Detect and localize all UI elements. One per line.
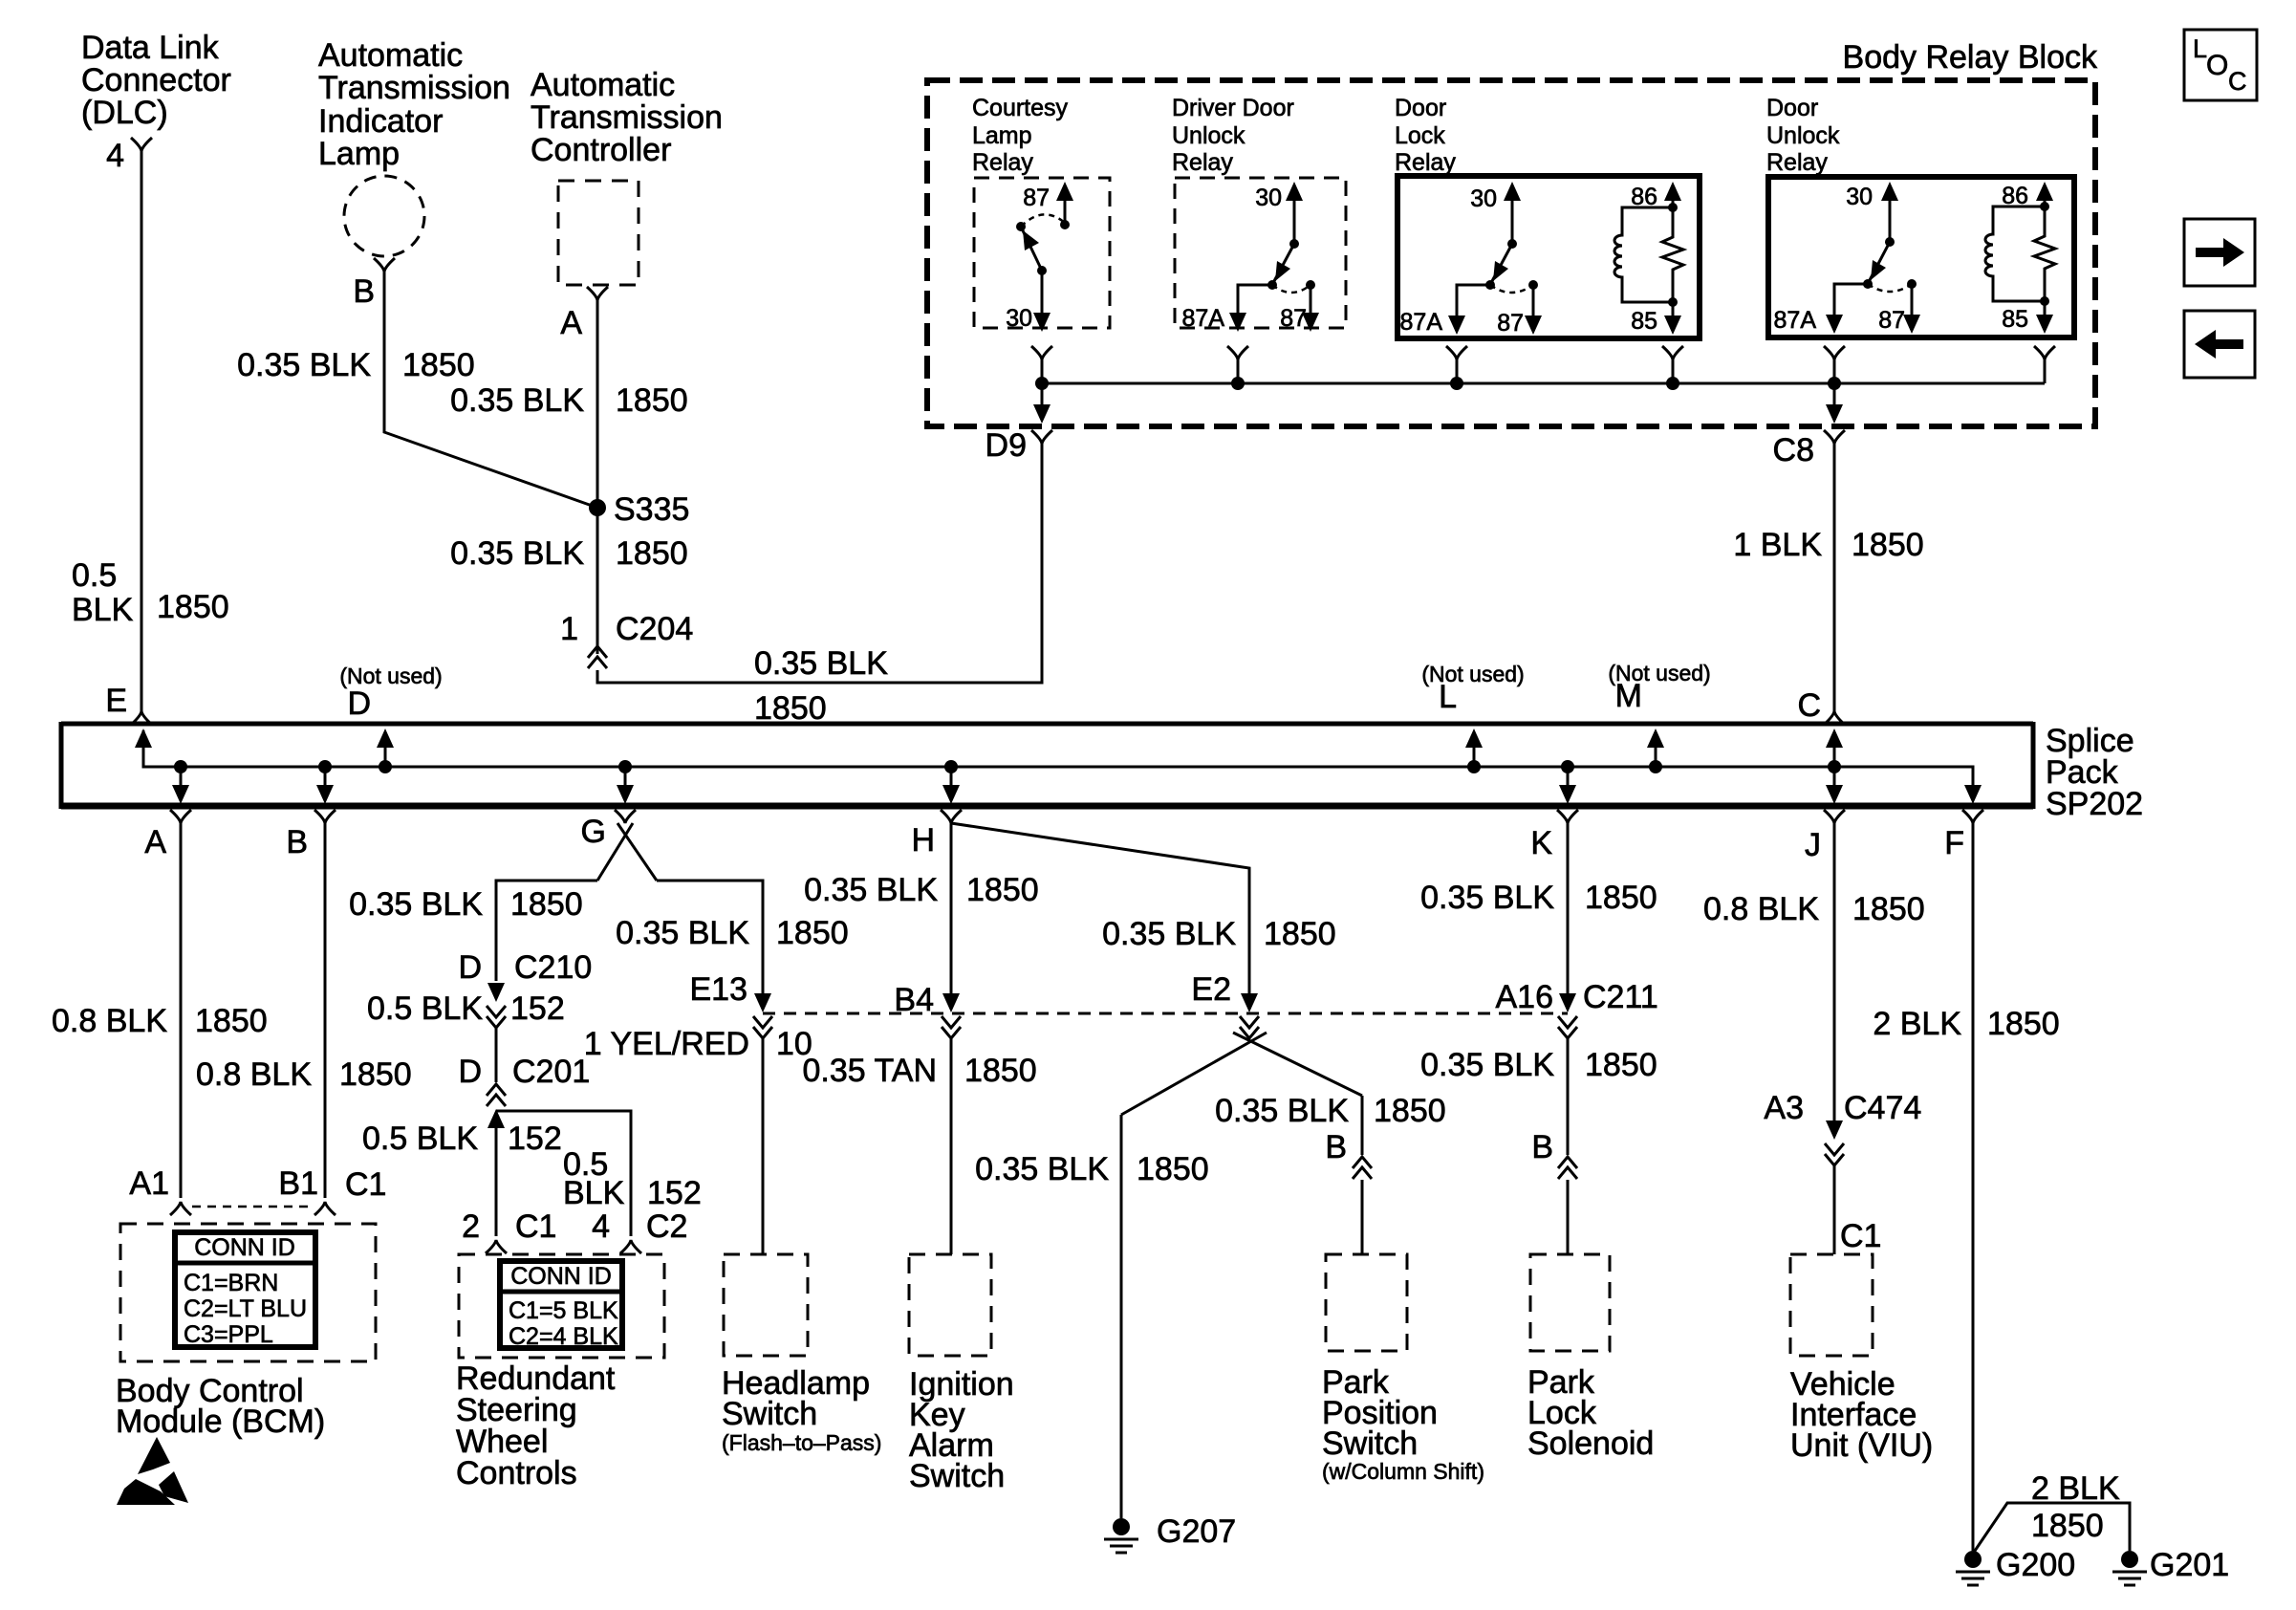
pin 30 stub with arrow	[1881, 182, 1898, 247]
switch S2 ignition key alarm dashed box	[909, 1254, 991, 1356]
svg-text:30: 30	[1006, 305, 1032, 332]
svg-text:Relay: Relay	[1766, 149, 1828, 176]
svg-text:87: 87	[1878, 307, 1905, 334]
legend arrow right box	[2184, 219, 2255, 286]
svg-text:Relay: Relay	[1395, 149, 1456, 176]
wire J to C474	[1833, 821, 1836, 1122]
wire label 0.5 BLK 152 (pin4 stacked)	[563, 1146, 702, 1211]
pin 87A leg	[1229, 285, 1272, 332]
svg-text:G207: G207	[1157, 1513, 1236, 1550]
solenoid L1 park lock label	[1527, 1364, 1654, 1462]
label (Not used) D	[339, 664, 442, 722]
wire label 1 YEL/RED 10	[584, 1026, 812, 1062]
svg-text:85: 85	[2002, 306, 2028, 333]
wire B to BCM C1	[324, 821, 327, 1198]
junction dot driver door 87A	[1231, 377, 1245, 390]
wire door unlock 85 to bus	[2044, 358, 2047, 383]
connector C204 labels 1 C204	[560, 611, 693, 647]
svg-text:BLK: BLK	[72, 592, 134, 628]
connector E2 arrow and chevrons	[1240, 993, 1259, 1038]
dashed interconnect wire E13-B4-E2-A16	[763, 1012, 1568, 1015]
svg-text:C1: C1	[345, 1166, 386, 1203]
svg-text:1850: 1850	[966, 872, 1039, 908]
svg-text:Data Link: Data Link	[81, 30, 220, 66]
wire label 1 BLK 1850	[1733, 527, 1923, 563]
svg-text:87A: 87A	[1774, 307, 1817, 334]
connector A3 C474 labels	[1764, 1090, 1921, 1126]
svg-text:C1=BRN: C1=BRN	[184, 1270, 278, 1296]
wire door lock 87A to bus	[1456, 358, 1459, 383]
splice S335	[589, 491, 689, 528]
wire C8 to splice C	[1833, 442, 1836, 711]
cup F and label	[1944, 810, 1983, 861]
svg-text:87: 87	[1497, 310, 1524, 337]
svg-text:1850: 1850	[1852, 891, 1925, 927]
svg-text:A3: A3	[1764, 1090, 1804, 1126]
wire E2 split X crossing	[1121, 1033, 1362, 1115]
cup under door unlock 85	[2034, 346, 2055, 359]
relay K4 switch blade	[1863, 242, 1890, 289]
wire G split X crossing	[597, 823, 657, 881]
switch S3 park position label	[1322, 1364, 1484, 1484]
module VIU dashed box	[1790, 1254, 1873, 1356]
wire label 0.35 BLK 1850 (G left)	[349, 886, 583, 923]
svg-text:Switch: Switch	[909, 1458, 1005, 1494]
connector C201 chevrons and arrow	[487, 1084, 506, 1128]
wire C201 to RSW pin 2	[495, 1126, 498, 1236]
wire E2 left branch to G207	[1120, 1115, 1123, 1518]
splice internal bus	[143, 730, 1973, 794]
wire K to A16	[1567, 821, 1570, 996]
ESD sensitive symbol	[117, 1437, 188, 1505]
pin 87 stub with arrow	[1056, 182, 1073, 229]
cup under door lock 87A	[1446, 346, 1467, 359]
pin 87 leg	[1525, 280, 1542, 335]
wire G right branch to E13	[657, 881, 763, 996]
svg-text:Relay: Relay	[1172, 149, 1233, 176]
svg-text:C201: C201	[512, 1054, 590, 1090]
cup BCM A1	[170, 1202, 191, 1215]
svg-text:A: A	[144, 824, 166, 860]
splice stub M not used	[1647, 729, 1664, 773]
svg-text:1850: 1850	[1987, 1006, 2060, 1042]
wire label 0.35 BLK 1850 (E13)	[616, 915, 849, 951]
connector B chevrons and arrow (PPS)	[1353, 1157, 1372, 1179]
svg-text:1850: 1850	[1264, 916, 1336, 952]
module RSW dashed box	[459, 1254, 664, 1358]
wire label 2 BLK 1850 (jog)	[2031, 1470, 2120, 1544]
pin 87A leg	[1448, 285, 1490, 335]
svg-text:Connector: Connector	[81, 62, 231, 98]
relay K3 switch blade	[1485, 244, 1512, 290]
wire label 0.35 BLK 1850	[237, 347, 475, 383]
DLC pin 4 connector cup	[131, 138, 152, 151]
cup K and label	[1530, 810, 1578, 861]
connector B4 arrow and chevrons	[942, 993, 961, 1038]
splice pack SP202 box	[61, 722, 2033, 809]
svg-text:C1=5 BLK: C1=5 BLK	[509, 1297, 618, 1324]
svg-text:4: 4	[592, 1208, 610, 1245]
svg-text:G: G	[581, 814, 606, 850]
wire label 0.35 BLK 1850 (K upper)	[1420, 880, 1657, 916]
svg-text:B: B	[286, 824, 308, 860]
svg-text:0.35 BLK: 0.35 BLK	[237, 347, 371, 383]
splice drop F arrow	[1964, 785, 1982, 804]
wire A to BCM A1	[180, 821, 183, 1198]
svg-text:0.35 BLK: 0.35 BLK	[975, 1151, 1109, 1187]
svg-text:0.35 BLK: 0.35 BLK	[1215, 1093, 1349, 1129]
BCM conn id table	[175, 1232, 315, 1348]
svg-text:C1: C1	[1840, 1218, 1881, 1254]
svg-text:1850: 1850	[616, 382, 688, 419]
relay K2 actuation arc	[1272, 285, 1310, 293]
svg-text:(w/Column Shift): (w/Column Shift)	[1322, 1459, 1484, 1484]
svg-text:D: D	[458, 1054, 482, 1090]
svg-text:Switch: Switch	[1322, 1425, 1418, 1462]
pin 2 C1 labels	[462, 1208, 556, 1245]
svg-text:C211: C211	[1583, 979, 1658, 1015]
svg-text:1850: 1850	[616, 535, 688, 572]
cup RSW pin 4	[620, 1240, 641, 1253]
cup under courtesy relay 30	[1031, 346, 1052, 359]
svg-text:87: 87	[1023, 185, 1050, 211]
pin 85 leg	[2036, 296, 2053, 334]
svg-text:0.35 BLK: 0.35 BLK	[349, 886, 483, 923]
cup BCM B1	[314, 1202, 336, 1215]
svg-text:H: H	[911, 822, 935, 859]
svg-text:0.5: 0.5	[72, 557, 117, 594]
wire label 0.35 BLK 1850 upper	[450, 382, 688, 419]
connector cup D9	[1031, 430, 1052, 444]
wire door lock 85 to bus	[1672, 358, 1675, 383]
relay K1 courtesy lamp relay box	[974, 178, 1110, 328]
label (Not used) M	[1608, 661, 1710, 714]
svg-text:1850: 1850	[1852, 527, 1924, 563]
svg-text:Solenoid: Solenoid	[1527, 1425, 1654, 1462]
wire label 0.8 BLK 1850 (J)	[1703, 891, 1925, 927]
module BCM dashed box	[120, 1224, 376, 1361]
svg-text:1850: 1850	[1137, 1151, 1209, 1187]
svg-text:2 BLK: 2 BLK	[1873, 1006, 1961, 1042]
connector C210 arrow and chevrons	[487, 983, 506, 1028]
wire jog G200 to G201	[1973, 1503, 2130, 1554]
svg-text:G200: G200	[1996, 1547, 2075, 1583]
svg-text:Unlock: Unlock	[1766, 122, 1840, 149]
svg-text:152: 152	[647, 1175, 702, 1211]
switch S1 headlamp dashed box	[724, 1254, 808, 1356]
pin 30 leg	[1033, 271, 1051, 332]
svg-text:Automatic: Automatic	[531, 67, 675, 103]
svg-text:D: D	[458, 949, 482, 986]
relay K2 switch blade	[1267, 244, 1294, 290]
cup J and label	[1805, 810, 1845, 863]
svg-text:0.35 BLK: 0.35 BLK	[450, 535, 584, 572]
wire B to park lock solenoid	[1567, 1180, 1570, 1254]
relay K2 driver door unlock relay box	[1175, 178, 1346, 328]
dashed link A1 to B1	[192, 1206, 314, 1208]
wire label 0.35 TAN 1850	[803, 1053, 1037, 1089]
svg-text:Driver Door: Driver Door	[1172, 95, 1294, 121]
svg-text:1850: 1850	[339, 1056, 412, 1093]
svg-text:D9: D9	[986, 427, 1027, 464]
connector cup at splice C	[1824, 711, 1845, 725]
wire label 2 BLK 1850 (F)	[1873, 1006, 2059, 1042]
splice drop J	[1826, 760, 1843, 804]
lamp label: Automatic Transmission Indicator Lamp	[318, 37, 510, 172]
relay K3 door lock relay box	[1397, 176, 1700, 338]
svg-text:Unit (VIU): Unit (VIU)	[1790, 1427, 1933, 1464]
cup H and label	[911, 810, 962, 859]
connector C201 labels D C201	[458, 1054, 590, 1090]
svg-text:D: D	[347, 685, 371, 722]
cup under door lock 85	[1662, 346, 1683, 359]
wire label 0.35 BLK 1850 (E2)	[1102, 916, 1336, 952]
wire controller A to C204	[596, 298, 599, 654]
svg-text:0.35 BLK: 0.35 BLK	[616, 915, 749, 951]
wire bus to D9 with arrow	[1033, 383, 1051, 424]
junction dot C8 column	[1828, 377, 1841, 390]
wire A16 to park lock solenoid B	[1567, 1038, 1570, 1155]
svg-text:1850: 1850	[2031, 1508, 2104, 1544]
relay K4 door unlock relay label	[1766, 95, 1840, 176]
controller label: Automatic Transmission Controller	[531, 67, 723, 168]
svg-text:C2: C2	[646, 1208, 687, 1245]
connector B chevrons and arrow (PLS)	[1558, 1157, 1577, 1179]
ground G207	[1104, 1513, 1236, 1553]
relay K4 coil	[1985, 207, 2045, 301]
pin 86 stub with arrow	[2036, 182, 2053, 211]
connector E13 arrow and chevrons	[753, 993, 772, 1038]
connector C204 chevrons	[588, 646, 607, 668]
splice drop B	[316, 760, 334, 804]
svg-text:2: 2	[462, 1208, 480, 1245]
svg-text:C3=PPL: C3=PPL	[184, 1321, 273, 1348]
junction dot door lock 85	[1666, 377, 1679, 390]
svg-text:85: 85	[1631, 308, 1657, 335]
svg-text:B1: B1	[278, 1165, 318, 1202]
ground G200	[1956, 1547, 2075, 1585]
relay K1 actuation arc	[1021, 214, 1065, 227]
svg-text:0.35 BLK: 0.35 BLK	[1102, 916, 1236, 952]
svg-text:152: 152	[510, 990, 565, 1027]
svg-text:L: L	[2193, 34, 2207, 63]
pin 30 stub with arrow	[1286, 182, 1303, 249]
svg-text:C1: C1	[515, 1208, 556, 1245]
svg-text:K: K	[1530, 825, 1552, 861]
wire label 0.8 BLK 1850 (A)	[52, 1003, 268, 1039]
svg-text:Controller: Controller	[531, 132, 671, 168]
svg-text:87A: 87A	[1182, 305, 1225, 332]
svg-text:1850: 1850	[754, 690, 827, 727]
svg-text:(Not used): (Not used)	[1421, 662, 1524, 686]
connector C474 arrow and chevrons	[1825, 1120, 1844, 1165]
wire label 0.5 BLK 152 (pin2)	[362, 1120, 562, 1157]
wire E2 right branch to park position switch	[1361, 1096, 1364, 1155]
pin 4 C2 labels	[592, 1208, 687, 1245]
svg-text:152: 152	[508, 1120, 562, 1157]
svg-text:1 YEL/RED: 1 YEL/RED	[584, 1026, 749, 1062]
cup A and label	[144, 810, 191, 860]
svg-text:L: L	[1439, 679, 1457, 715]
relay K3 door lock relay label	[1395, 95, 1456, 176]
svg-text:30: 30	[1846, 184, 1873, 210]
svg-text:CONN ID: CONN ID	[510, 1263, 612, 1290]
svg-text:M: M	[1615, 678, 1642, 714]
body relay block dashed border	[927, 80, 2095, 426]
svg-text:Courtesy: Courtesy	[972, 95, 1069, 121]
svg-text:C: C	[2228, 67, 2247, 96]
splice pack SP202 label	[2046, 723, 2143, 822]
splice C entry arrow stub	[1826, 729, 1843, 767]
svg-text:Transmission: Transmission	[531, 99, 723, 136]
pin 30 stub with arrow	[1504, 182, 1521, 249]
svg-text:0.8 BLK: 0.8 BLK	[1703, 891, 1819, 927]
svg-text:C: C	[1797, 687, 1821, 724]
svg-text:1850: 1850	[1585, 880, 1657, 916]
svg-text:0.8 BLK: 0.8 BLK	[52, 1003, 167, 1039]
svg-text:C474: C474	[1844, 1090, 1921, 1126]
svg-text:0.35 BLK: 0.35 BLK	[1420, 1047, 1554, 1083]
wire C210 to C201	[495, 1028, 498, 1082]
wire courtesy 30 to bus	[1041, 358, 1044, 383]
wire door unlock 87A to bus	[1833, 358, 1836, 383]
wire C204 to D9	[597, 442, 1042, 683]
splice stub L not used	[1465, 729, 1483, 773]
relay K3 actuation arc	[1490, 285, 1533, 293]
svg-text:O: O	[2206, 50, 2228, 81]
svg-text:0.35 TAN: 0.35 TAN	[803, 1053, 937, 1089]
svg-text:Controls: Controls	[456, 1455, 577, 1491]
svg-text:E: E	[105, 683, 127, 719]
splice drop H	[942, 760, 960, 804]
svg-text:2 BLK: 2 BLK	[2031, 1470, 2120, 1507]
splice drop K	[1559, 760, 1576, 804]
svg-text:Indicator: Indicator	[318, 103, 443, 140]
svg-text:Unlock: Unlock	[1172, 122, 1245, 149]
svg-text:Lock: Lock	[1395, 122, 1445, 149]
module BCM label	[116, 1373, 325, 1440]
relay K2 driver door unlock relay label	[1172, 95, 1294, 176]
wire C474 to VIU C1	[1833, 1165, 1836, 1254]
legend LOC box	[2184, 30, 2257, 100]
wire H to B4	[950, 821, 953, 996]
svg-text:1: 1	[560, 611, 578, 647]
wire driver door 87A to bus	[1237, 358, 1240, 383]
svg-text:0.35 BLK: 0.35 BLK	[1420, 880, 1554, 916]
cup under driver door relay 87A	[1227, 346, 1248, 359]
svg-text:(Flash–to–Pass): (Flash–to–Pass)	[722, 1430, 881, 1455]
svg-text:Transmission: Transmission	[318, 70, 510, 106]
switch S1 headlamp label	[722, 1365, 881, 1455]
RSW conn id table	[500, 1261, 622, 1350]
svg-text:4: 4	[106, 138, 124, 174]
pin 87 leg	[1302, 280, 1319, 332]
svg-text:C2=4 BLK: C2=4 BLK	[509, 1323, 618, 1350]
svg-text:F: F	[1944, 825, 1964, 861]
wire B4 to ignition key alarm switch	[950, 1038, 953, 1254]
pin 87 leg	[1903, 279, 1920, 334]
svg-text:SP202: SP202	[2046, 786, 2143, 822]
splice stub D not used	[377, 729, 394, 773]
switch S3 park position dashed box	[1326, 1254, 1407, 1351]
junction dot door lock 87A	[1450, 377, 1463, 390]
cup G and label	[581, 810, 636, 850]
svg-text:0.8 BLK: 0.8 BLK	[196, 1056, 312, 1093]
connector cup C8	[1824, 430, 1845, 444]
svg-text:1850: 1850	[402, 347, 475, 383]
svg-text:0.35 BLK: 0.35 BLK	[450, 382, 584, 419]
svg-text:0.5 BLK: 0.5 BLK	[362, 1120, 478, 1157]
wire label 0.35 BLK 1850 (B4)	[804, 872, 1039, 908]
relay K4 door unlock relay box	[1768, 177, 2074, 337]
svg-text:S335: S335	[614, 491, 689, 528]
legend arrow left box	[2184, 311, 2255, 378]
svg-text:A16: A16	[1496, 979, 1554, 1015]
wire label 0.5 BLK 152	[367, 990, 565, 1027]
svg-text:CONN ID: CONN ID	[194, 1234, 295, 1261]
junction dot D9 column	[1035, 377, 1049, 390]
splice E entry arrow	[135, 729, 152, 748]
svg-text:Door: Door	[1395, 95, 1446, 121]
relay K4 resistor	[2034, 207, 2055, 301]
relay block ground bus	[1042, 382, 2045, 385]
svg-text:B: B	[1325, 1129, 1347, 1165]
label (Not used) L	[1421, 662, 1524, 715]
svg-text:E13: E13	[690, 971, 748, 1008]
svg-text:Module (BCM): Module (BCM)	[116, 1403, 325, 1440]
connector DLC label	[81, 30, 231, 131]
relay K4 actuation arc	[1868, 284, 1912, 292]
svg-text:30: 30	[1255, 185, 1282, 211]
wire label 0.35 BLK 1850 (PPS)	[1215, 1093, 1446, 1129]
wire F to G200	[1972, 821, 1975, 1551]
svg-text:C204: C204	[616, 611, 693, 647]
wire bus to C8 with arrow	[1826, 383, 1843, 424]
cup under door unlock 87A	[1824, 346, 1845, 359]
lamp pin B connector cup	[374, 258, 395, 272]
splice drop G	[617, 760, 634, 804]
connector A16 C211 labels	[1496, 979, 1658, 1015]
relay K1 contact pivot dot	[1016, 222, 1026, 231]
svg-text:Lamp: Lamp	[318, 136, 400, 172]
splice drop A	[172, 760, 189, 804]
svg-text:Switch: Switch	[722, 1396, 817, 1432]
pin 86 stub with arrow	[1664, 182, 1681, 212]
svg-text:Relay: Relay	[972, 149, 1033, 176]
svg-text:Lamp: Lamp	[972, 122, 1032, 149]
svg-text:1850: 1850	[510, 886, 583, 923]
svg-text:E2: E2	[1191, 971, 1231, 1008]
svg-text:G201: G201	[2150, 1547, 2229, 1583]
wire E13 to headlamp switch	[762, 1038, 765, 1254]
svg-text:Automatic: Automatic	[318, 37, 463, 74]
svg-text:87A: 87A	[1400, 309, 1443, 336]
controller pin A connector cup	[587, 287, 608, 300]
wire lamp B to S335	[384, 270, 597, 508]
svg-text:B: B	[1531, 1129, 1553, 1165]
lamp L1 dashed circle	[344, 176, 424, 256]
switch S2 ignition key alarm label	[909, 1366, 1014, 1494]
svg-text:Body Relay Block: Body Relay Block	[1843, 39, 2098, 76]
wire branch to RSW pin 4	[496, 1111, 631, 1236]
connector A16 arrow and chevrons	[1558, 993, 1577, 1038]
svg-text:1850: 1850	[1585, 1047, 1657, 1083]
wire label 0.35 BLK 1850 (G207)	[975, 1151, 1209, 1187]
svg-text:C2=LT BLU: C2=LT BLU	[184, 1295, 307, 1322]
svg-text:(DLC): (DLC)	[81, 95, 168, 131]
relay K3 coil	[1614, 207, 1673, 302]
svg-text:C8: C8	[1773, 432, 1814, 468]
